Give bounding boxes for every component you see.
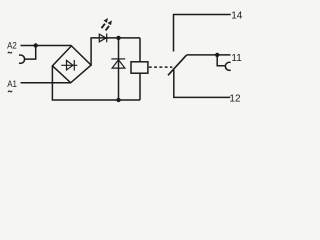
svg-text:A2: A2 [7,40,17,51]
node 11 junction [215,53,219,57]
wire A2 to bridge top [21,45,72,47]
wire 11 junction down to socket [217,55,225,66]
wire 12 lead [174,70,230,98]
relay coil K1 [131,62,148,73]
node A2 junction [34,43,38,47]
node bottom rail junction [116,98,120,102]
bridge internal diode [61,60,77,71]
wire 14 lead [174,15,231,52]
bridge rectifier BR1 [52,46,91,83]
actuator link (dashed) [149,66,173,68]
terminal label A1 [7,79,17,90]
LED emission arrows [102,18,112,30]
wire bridge left output down [51,66,53,100]
plug-in terminal socket 11 [225,62,230,70]
terminal label A2 [7,40,17,51]
svg-text:12: 12 [229,94,241,105]
changeover contact arm [168,55,186,75]
svg-text:11: 11 [231,53,242,64]
svg-text:A1: A1 [7,79,17,90]
wire freewheel branch vertical [118,38,120,100]
wire coil top lead [139,38,141,62]
wire bottom rail [52,99,140,101]
svg-text:14: 14 [231,10,243,21]
AC mark (~) under A2 [8,52,12,53]
AC mark (~) under A1 [8,91,12,92]
wire coil bottom lead [139,73,141,100]
plug-in terminal socket A2 [19,55,25,63]
wire junction down to socket [24,46,35,60]
diode D2 freewheeling (points up) [111,59,125,68]
wire bridge right output up and top rail [91,38,140,65]
node top rail junction [116,36,120,40]
wire A1 to bridge bottom [21,82,71,84]
wire 11 lead [186,54,230,56]
LED D1 [99,34,106,43]
